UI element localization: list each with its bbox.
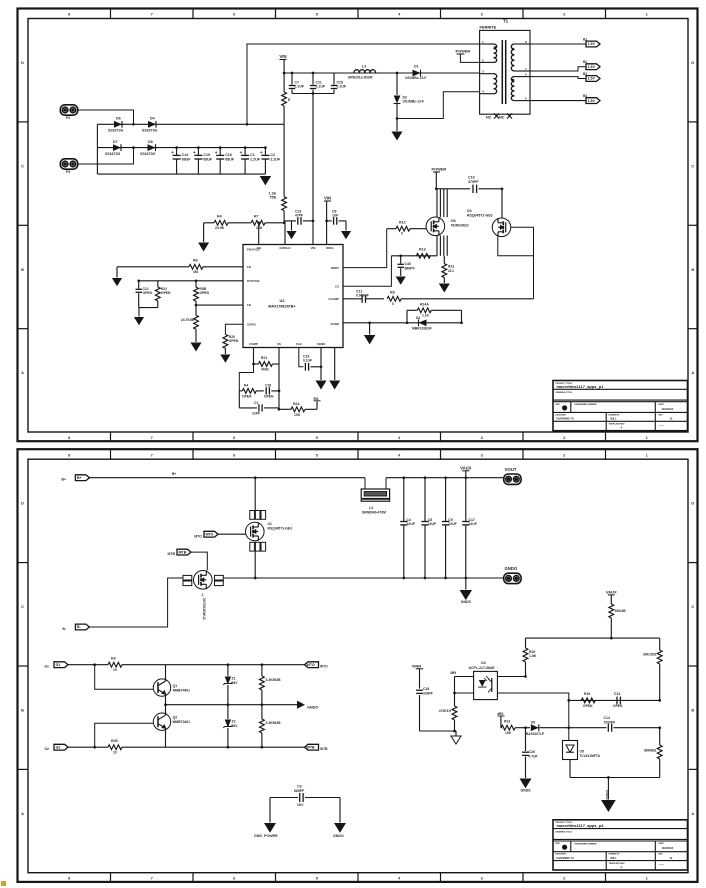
- svg-text:B3: B3: [583, 72, 587, 76]
- svg-text:1.5V: 1.5V: [588, 65, 596, 69]
- net flag OUT2: [586, 64, 600, 70]
- net flag WTB: [305, 744, 319, 750]
- capacitor C10B: [524, 726, 527, 729]
- svg-text:1KV: 1KV: [297, 803, 304, 807]
- wire bridge left rail: [96, 124, 98, 174]
- resistor R14A loop: [406, 310, 408, 323]
- wire D3 bottom: [498, 237, 534, 256]
- inductor L3: [354, 70, 376, 73]
- resistor R21B: [259, 362, 273, 367]
- ground pin SGND: [320, 348, 322, 381]
- svg-text:GNDS: GNDS: [461, 600, 472, 604]
- svg-text:24.7K5B: 24.7K5B: [181, 318, 195, 322]
- svg-text:WTO: WTO: [320, 665, 328, 669]
- transistor H3: [426, 217, 445, 236]
- svg-text:D8: D8: [148, 140, 153, 144]
- resistor R22: [157, 281, 159, 287]
- wire gate2 rail: [68, 746, 108, 748]
- svg-text:SRN8040-470M: SRN8040-470M: [362, 510, 386, 514]
- wire EN pin: [258, 223, 260, 245]
- svg-text:470K1H: 470K1H: [439, 709, 452, 713]
- capacitor C10: [472, 185, 474, 193]
- svg-text:1.5V: 1.5V: [588, 42, 596, 46]
- svg-text:SGND: SGND: [317, 342, 325, 346]
- wire top rail right: [386, 477, 504, 479]
- resistor R12: [396, 226, 410, 231]
- svg-text:22UF: 22UF: [469, 522, 477, 526]
- svg-text:G2: G2: [56, 745, 61, 749]
- svg-text:CHAYWENG YU: CHAYWENG YU: [556, 857, 574, 860]
- wire drain bus: [436, 188, 470, 190]
- connector P2: [60, 105, 77, 115]
- svg-text:C: C: [21, 163, 24, 168]
- svg-text:REV: REV: [659, 854, 664, 856]
- resistor R8: [387, 296, 401, 301]
- svg-text:OPEN: OPEN: [200, 291, 210, 295]
- wire Q2 base: [95, 723, 154, 747]
- svg-text:VIN: VIN: [311, 246, 316, 250]
- svg-text:B2: B2: [583, 60, 587, 64]
- svg-text:0.1UF: 0.1UF: [303, 359, 312, 363]
- ground GND_POWER: [269, 798, 271, 823]
- wire SS pin left: [225, 324, 243, 334]
- svg-text:2.2UF: 2.2UF: [250, 158, 261, 162]
- wire R4 R7 node: [204, 222, 215, 224]
- ground R20: [220, 355, 230, 363]
- svg-text:MMBT4401: MMBT4401: [173, 689, 191, 693]
- svg-text:L2: L2: [369, 506, 373, 510]
- capacitor C9: [444, 476, 447, 479]
- svg-text:P2: P2: [66, 116, 70, 120]
- svg-text:MBR120ESF: MBR120ESF: [412, 327, 432, 331]
- svg-text:C1: C1: [254, 401, 258, 405]
- wire top long run: [247, 44, 480, 124]
- T1 secondary winding 1: [511, 44, 514, 71]
- svg-text:C: C: [691, 604, 694, 609]
- wire secondary to flag3: [530, 77, 586, 79]
- svg-text:U2: U2: [280, 298, 286, 303]
- wire RT pin: [139, 280, 243, 282]
- capacitor C45: [399, 254, 402, 257]
- svg-text:10: 10: [113, 751, 117, 755]
- wire bottom rail: [225, 577, 504, 579]
- capacitor C3: [270, 797, 298, 799]
- wire P2 to bridge: [78, 110, 134, 124]
- svg-text:7: 7: [151, 452, 153, 457]
- transformer T1: [480, 30, 530, 114]
- svg-text:A: A: [621, 865, 623, 869]
- capacitor C11: [361, 295, 363, 303]
- svg-text:CHAYWENG YU: CHAYWENG YU: [556, 418, 574, 421]
- svg-text:FDMC8622: FDMC8622: [451, 224, 469, 228]
- svg-text:18V: 18V: [232, 681, 239, 685]
- svg-text:SS16T3G: SS16T3G: [140, 152, 156, 156]
- capacitor C18: [265, 387, 267, 394]
- svg-text:FB: FB: [247, 303, 251, 307]
- border frame sheet: [18, 449, 698, 882]
- capacitor C6: [325, 220, 328, 223]
- diode D7: [113, 144, 121, 151]
- wire D3 drain: [501, 189, 503, 218]
- svg-text:B+: B+: [172, 472, 176, 476]
- svg-text:TEMPLATE REV:: TEMPLATE REV:: [609, 862, 626, 865]
- resistor R17: [659, 638, 661, 650]
- svg-text:SIZE: SIZE: [555, 843, 560, 845]
- wire H3 source: [436, 236, 438, 256]
- svg-text:OPEN: OPEN: [264, 395, 274, 399]
- svg-text:HARDWARE NUMBER: HARDWARE NUMBER: [575, 842, 597, 845]
- resistor R6: [117, 266, 189, 268]
- svg-text:D6: D6: [116, 117, 121, 121]
- ground R6: [116, 267, 118, 278]
- wire VIN pin: [312, 221, 314, 245]
- svg-text:G1: G1: [56, 663, 61, 667]
- svg-text:OPEN: OPEN: [242, 395, 252, 399]
- diode D5: [531, 724, 539, 731]
- capacitor C15: [197, 148, 199, 156]
- wire D2 to transformer pin4: [397, 92, 480, 119]
- svg-text:WTB: WTB: [307, 745, 316, 749]
- wire Q2 collector: [165, 730, 167, 747]
- gnd arrow right: [297, 701, 305, 709]
- svg-text:18V: 18V: [232, 724, 239, 728]
- svg-text:POWER: POWER: [432, 167, 447, 172]
- svg-text:EN: EN: [257, 246, 261, 250]
- diode D8: [148, 144, 156, 151]
- svg-text:9/19/2014: 9/19/2014: [662, 847, 674, 850]
- svg-text:SS/PG: SS/PG: [247, 322, 257, 326]
- svg-text:GNDS: GNDS: [520, 789, 531, 793]
- svg-text:+: +: [193, 150, 196, 155]
- svg-text:maxrefdes1117_apps_p3: maxrefdes1117_apps_p3: [557, 823, 605, 828]
- svg-text:DESIGNER:: DESIGNER:: [555, 854, 566, 856]
- net flag OUT4: [586, 98, 600, 104]
- diode D6: [114, 121, 122, 128]
- capacitor C17: [464, 476, 467, 479]
- svg-text:DATE: DATE: [659, 403, 665, 406]
- svg-text:R26: R26: [111, 739, 118, 743]
- svg-text:DRAWING TITLE:: DRAWING TITLE:: [556, 391, 573, 394]
- resistor R4B: [239, 390, 242, 392]
- transistor Q1: [153, 679, 170, 696]
- resistor R4: [214, 220, 228, 225]
- svg-text:A: A: [691, 370, 694, 375]
- resistor R2A: [279, 408, 291, 410]
- svg-text:GNDO: GNDO: [307, 706, 318, 710]
- diode D2: [396, 72, 399, 75]
- svg-text:US1MBe-13-F: US1MBe-13-F: [403, 100, 424, 104]
- ground SS: [369, 323, 371, 335]
- svg-text:U4: U4: [481, 661, 486, 665]
- resistor R9: [195, 305, 197, 315]
- wire comp loop: [239, 364, 253, 391]
- svg-text:7: 7: [151, 12, 153, 17]
- wire opto gnd rail: [420, 730, 457, 732]
- svg-text:FB: FB: [247, 265, 251, 269]
- svg-text:MTB: MTB: [179, 550, 187, 554]
- svg-text:SS: SS: [277, 342, 281, 346]
- svg-text:OPEN: OPEN: [229, 339, 239, 343]
- ground C10B: [520, 779, 532, 789]
- svg-text:D: D: [21, 60, 24, 65]
- capacitor C4: [402, 476, 405, 479]
- capacitor C8: [424, 476, 427, 479]
- svg-text:A: A: [21, 370, 24, 375]
- svg-text:GNDO: GNDO: [333, 834, 344, 838]
- wire bridge top bus: [97, 123, 284, 125]
- svg-text:D4: D4: [150, 117, 155, 121]
- wire Q1 collector: [165, 665, 167, 681]
- wire bridge mid bus: [97, 147, 265, 149]
- ground signal triangle: [455, 731, 457, 736]
- svg-text:RT/SYNC: RT/SYNC: [247, 279, 261, 283]
- wire C10 right: [479, 188, 502, 190]
- svg-text:POWER: POWER: [456, 49, 471, 54]
- svg-text:24.9K: 24.9K: [215, 226, 225, 230]
- svg-text:L3: L3: [362, 65, 366, 69]
- svg-text:A: A: [621, 426, 623, 430]
- svg-text:MMBT4401: MMBT4401: [173, 720, 191, 724]
- resistor R10: [525, 638, 527, 648]
- svg-text:MAX17681ATB+: MAX17681ATB+: [268, 305, 295, 309]
- svg-text:R13: R13: [504, 720, 510, 724]
- svg-text:U5: U5: [580, 749, 585, 753]
- svg-text:DATE: DATE: [659, 842, 665, 845]
- svg-text:6K04B: 6K04B: [615, 609, 626, 613]
- svg-text:FERRITE: FERRITE: [480, 25, 497, 30]
- svg-text:T5B: T5B: [269, 196, 276, 200]
- ground R9: [190, 343, 201, 352]
- svg-text:C18: C18: [265, 384, 271, 388]
- svg-text:0.1UF: 0.1UF: [316, 85, 325, 89]
- optocoupler U4: [474, 671, 498, 699]
- resistor R25: [261, 705, 263, 719]
- svg-text:680PF: 680PF: [294, 789, 304, 793]
- svg-text:+: +: [215, 150, 218, 155]
- svg-text:D4: D4: [416, 316, 420, 320]
- ground D2: [396, 119, 398, 132]
- svg-text:NC: NC: [486, 116, 492, 120]
- svg-text:7: 7: [151, 435, 153, 440]
- svg-text:MTB: MTB: [167, 552, 175, 556]
- capacitor C1: [244, 148, 246, 156]
- svg-text:VAUX: VAUX: [606, 589, 617, 594]
- wire VIN bus y73: [284, 72, 480, 74]
- svg-text:DRAWN BY:: DRAWN BY:: [609, 413, 621, 416]
- svg-text:R12: R12: [399, 221, 406, 225]
- wire U5 bottom rail: [569, 760, 571, 778]
- wire FB run: [343, 298, 362, 300]
- svg-text:DESIGNER:: DESIGNER:: [555, 414, 566, 416]
- svg-text:G1: G1: [44, 665, 49, 669]
- wire top rail: [89, 477, 365, 479]
- svg-text:47PF: 47PF: [295, 214, 303, 218]
- svg-text:WTB: WTB: [320, 747, 328, 751]
- svg-text:R6: R6: [193, 259, 198, 263]
- svg-text:30K1501: 30K1501: [643, 653, 657, 657]
- wire P3 to bridge: [78, 148, 134, 164]
- svg-text:680PF: 680PF: [405, 266, 415, 270]
- wire gate1 rail: [68, 664, 108, 666]
- svg-text:R4: R4: [244, 384, 248, 388]
- svg-text:-: -: [575, 847, 576, 850]
- svg-text:-: -: [575, 408, 576, 411]
- svg-text:ACOMP: ACOMP: [328, 297, 339, 301]
- svg-text:Z1: Z1: [232, 677, 236, 681]
- svg-text:R10: R10: [529, 650, 535, 654]
- wire Q2 emitter: [165, 705, 167, 715]
- svg-text:H3: H3: [451, 219, 456, 223]
- U1 source pads: [250, 542, 255, 551]
- svg-text:86K6B1: 86K6B1: [644, 749, 656, 753]
- svg-text:+: +: [240, 150, 243, 155]
- svg-text:maxrefdes1117_apps_p1: maxrefdes1117_apps_p1: [557, 384, 605, 389]
- transistor Q3: [194, 571, 213, 590]
- diode D4: [148, 121, 156, 128]
- svg-text:1.5V: 1.5V: [588, 77, 596, 81]
- wire Q1 emitter / mid rail: [165, 696, 167, 704]
- svg-text:RES1: RES1: [326, 246, 334, 250]
- net flag OUT3: [586, 76, 600, 82]
- wire drain parallel lines: [436, 189, 438, 217]
- svg-text:R3: R3: [111, 657, 116, 661]
- ground R4: [203, 223, 205, 242]
- svg-text:4R9: 4R9: [450, 671, 456, 675]
- svg-text:VOUT: VOUT: [505, 467, 517, 472]
- svg-text:MTO: MTO: [206, 532, 214, 536]
- wire cap bottom bus: [292, 93, 334, 95]
- border frame sheet: [18, 9, 698, 442]
- transistor U1: [246, 522, 265, 541]
- svg-text:WTO: WTO: [307, 663, 315, 667]
- ground GNDO2: [339, 798, 341, 823]
- svg-text:TEMPLATE REV:: TEMPLATE REV:: [609, 423, 626, 426]
- svg-text:1.1K: 1.1K: [422, 314, 430, 318]
- svg-text:Q2: Q2: [173, 716, 178, 720]
- T1 primary winding 1: [494, 44, 497, 62]
- svg-text:OPEN: OPEN: [161, 291, 171, 295]
- svg-text:VIN: VIN: [324, 196, 331, 201]
- svg-text:1UF: 1UF: [332, 214, 338, 218]
- wire vref row: [501, 727, 502, 729]
- capacitor C2: [264, 148, 266, 156]
- capacitor C7: [291, 73, 293, 85]
- svg-text:22UF: 22UF: [428, 522, 436, 526]
- svg-text:CM/SLO: CM/SLO: [279, 246, 291, 250]
- svg-text:22UF: 22UF: [448, 522, 456, 526]
- capacitor C16: [219, 148, 221, 156]
- resistor R18 470K: [454, 677, 456, 707]
- svg-text:3.3K563B: 3.3K563B: [266, 721, 282, 725]
- wire secondary to flag1: [530, 43, 586, 45]
- svg-text:——: ——: [659, 863, 665, 866]
- svg-text:B: B: [21, 267, 24, 272]
- svg-text:OPEN: OPEN: [613, 704, 623, 708]
- svg-text:RSQ045T1-GE3: RSQ045T1-GE3: [467, 214, 493, 218]
- op-amp U2 MAX17681: [243, 245, 343, 348]
- svg-text:R4: R4: [217, 215, 222, 219]
- svg-text:9/19/2014: 9/19/2014: [662, 408, 674, 411]
- T1 secondary winding 2: [511, 77, 514, 101]
- svg-text:HARDWARE NUMBER: HARDWARE NUMBER: [575, 403, 597, 406]
- diode D1: [413, 70, 421, 77]
- svg-text:0.068UF: 0.068UF: [356, 293, 369, 297]
- svg-text:VINR: VINR: [412, 663, 422, 668]
- connector P3: [60, 159, 77, 169]
- svg-text:FLB: FLB: [296, 342, 302, 346]
- svg-text:MTO: MTO: [194, 534, 202, 538]
- svg-text:402K: 402K: [261, 368, 270, 372]
- svg-text:0: 0: [401, 232, 403, 236]
- wire opto anode: [455, 676, 474, 678]
- svg-text:4.7UF: 4.7UF: [529, 754, 538, 758]
- wire U1 drain: [254, 476, 257, 479]
- svg-text:1.8K: 1.8K: [529, 654, 537, 658]
- wire SS run: [343, 322, 462, 324]
- svg-text:NDRV: NDRV: [331, 266, 339, 270]
- resistor R13B: [501, 725, 515, 730]
- inductor L2: [364, 478, 366, 489]
- svg-text:D7: D7: [113, 140, 118, 144]
- svg-text:2L1: 2L1: [448, 269, 454, 273]
- svg-text:B1: B1: [583, 38, 587, 42]
- svg-text:SS16T3G: SS16T3G: [108, 129, 124, 133]
- svg-text:GNDO: GNDO: [505, 566, 518, 571]
- wire bottom bus: [97, 173, 265, 175]
- svg-text:D: D: [691, 501, 694, 506]
- capacitor C19: [299, 348, 304, 367]
- svg-text:US1MBe-13-F: US1MBe-13-F: [405, 76, 426, 80]
- svg-text:TLV431MFTA: TLV431MFTA: [580, 754, 601, 758]
- capacitor C1B: [238, 391, 240, 408]
- shunt reg U5 TLV431: [563, 741, 578, 760]
- svg-text:P3: P3: [66, 170, 70, 174]
- svg-text:C2: C2: [270, 153, 275, 157]
- corner artifact: [1, 881, 6, 886]
- wire COMP pin down: [253, 348, 255, 365]
- resistor R3: [108, 662, 122, 667]
- transistor Q2: [153, 713, 170, 730]
- svg-text:0: 0: [392, 302, 394, 306]
- resistor R20: [223, 334, 228, 348]
- svg-text:3.3K563B: 3.3K563B: [266, 678, 282, 682]
- svg-text:A: A: [21, 811, 24, 816]
- svg-text:VAUX: VAUX: [460, 465, 472, 470]
- svg-text:2: 2: [202, 593, 204, 597]
- title block: [553, 820, 688, 870]
- svg-text:24K: 24K: [256, 226, 263, 230]
- svg-text:C20: C20: [529, 750, 535, 754]
- svg-text:BIILL: BIILL: [611, 857, 618, 860]
- wire secondary to flag4: [530, 100, 586, 102]
- wire RC bottom: [139, 307, 158, 309]
- resistor R5: [195, 279, 198, 282]
- svg-text:D3: D3: [467, 209, 472, 213]
- svg-text:PGND: PGND: [331, 322, 339, 326]
- svg-text:C: C: [21, 604, 24, 609]
- capacitor C20: [333, 73, 335, 85]
- svg-text:2.2UF: 2.2UF: [270, 158, 281, 162]
- resistor R1: [282, 92, 287, 106]
- svg-text:BAS316TLP: BAS316TLP: [526, 732, 545, 736]
- zener Z1: [227, 665, 229, 676]
- wire opto collector: [497, 676, 525, 678]
- svg-text:R21: R21: [261, 356, 267, 360]
- svg-text:OPEN: OPEN: [143, 291, 153, 295]
- svg-text:1M: 1M: [193, 270, 198, 274]
- svg-text:10K: 10K: [505, 731, 512, 735]
- wire comp row: [569, 699, 660, 701]
